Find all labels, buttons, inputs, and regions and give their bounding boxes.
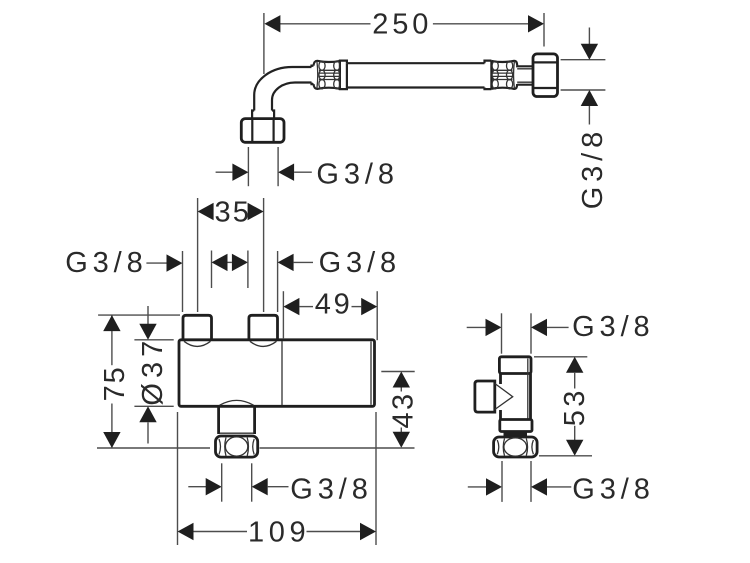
dim 75 line upper <box>111 315 113 365</box>
dim 49 left ext line <box>282 291 284 339</box>
hose right dim top arrow + line <box>588 28 590 45</box>
dim 109 lines <box>194 531 248 533</box>
front G3/8 right arrow <box>278 254 294 271</box>
dim Ø37 top tick <box>134 339 173 341</box>
bottom G3/8 lead line <box>188 486 206 488</box>
dimension 250 left arrow <box>264 15 280 32</box>
hose G3/8 right lead line <box>294 171 312 173</box>
side valve cylinder inner edge <box>527 359 529 420</box>
dim 53 lower line <box>574 426 576 440</box>
svg-text:G3/8: G3/8 <box>316 158 398 190</box>
dim 49 right arrow <box>361 298 377 315</box>
side valve dark neck <box>504 432 528 438</box>
svg-text:G3/8: G3/8 <box>65 247 147 279</box>
right top port <box>249 315 278 340</box>
dim 53 bottom tick <box>539 455 592 457</box>
dimension 250 ext line right <box>543 13 545 47</box>
dim 49 left arrow <box>283 298 299 315</box>
svg-text:75: 75 <box>99 365 131 401</box>
svg-text:Ø37: Ø37 <box>137 336 169 406</box>
left top port fillet <box>184 341 211 346</box>
hose elbow outer curve <box>254 67 311 95</box>
dim 43 top tick <box>381 371 414 373</box>
middle pair left ext line <box>211 251 213 289</box>
svg-text:G3/8: G3/8 <box>577 127 609 209</box>
dim 109 right arrow <box>360 523 376 540</box>
bottom nut side faces <box>225 438 249 457</box>
bottom G3/8 right lead line <box>268 486 289 488</box>
bottom G3/8 right arrow <box>252 478 268 495</box>
dim 35 left arrow <box>198 203 214 220</box>
svg-text:250: 250 <box>372 9 432 41</box>
dim 53 bottom arrow <box>566 440 583 456</box>
hose elbow inner curve <box>272 83 312 101</box>
front G3/8 left arrow <box>167 254 183 271</box>
right crimp lattice <box>492 61 513 89</box>
side outlet chevron <box>495 384 513 410</box>
dim 35 right arrow <box>248 203 264 220</box>
bottom port <box>219 406 255 434</box>
svg-text:G3/8: G3/8 <box>290 473 372 505</box>
dim 53 top arrow <box>566 357 583 373</box>
right crimp sleeve outline <box>491 61 517 89</box>
side top G3/8 right arrow <box>531 319 547 336</box>
side nut faces <box>503 439 527 456</box>
middle pair right arrow <box>232 254 248 271</box>
bottom port collar line <box>220 432 254 434</box>
dimension 250 line left segment <box>279 23 371 25</box>
hose right nut hex faces <box>534 62 557 88</box>
side valve cylinder <box>501 374 531 420</box>
left crimp sleeve bands <box>340 61 347 89</box>
nipple between crimp and nut <box>517 66 533 85</box>
side valve collar <box>500 420 532 432</box>
side top G3/8 right lead line <box>547 326 569 328</box>
dimension 250 line right segment <box>433 23 529 25</box>
valve body <box>179 340 375 407</box>
dim 75 bottom arrow <box>103 432 120 448</box>
bottom reference line left segment <box>97 447 210 449</box>
dim Ø37 bottom arrow+line <box>139 406 156 422</box>
hose body top line <box>347 62 485 64</box>
dim Ø37 top line+arrow <box>147 306 149 324</box>
front G3/8 right lead line <box>294 261 313 263</box>
valve body division line <box>281 341 283 405</box>
hose G3/8 left arrow <box>232 164 248 181</box>
hose left collar <box>252 111 274 119</box>
side valve hex nut <box>494 437 537 457</box>
hose right nut <box>533 54 558 97</box>
right crimp band <box>485 61 492 90</box>
left top port <box>183 315 212 340</box>
svg-text:53: 53 <box>559 387 591 426</box>
svg-text:G3/8: G3/8 <box>572 473 654 505</box>
dim 109 right ext line <box>375 412 377 545</box>
svg-text:G3/8: G3/8 <box>319 247 401 279</box>
right top port fillet <box>250 341 277 346</box>
dim 75 top tick <box>98 314 180 316</box>
hose left nut <box>241 119 284 143</box>
bottom nut corner arcs <box>219 439 254 455</box>
hose left nut hex faces <box>252 120 273 142</box>
dim 49 right ext line <box>376 291 378 340</box>
bottom reference line right segment <box>260 447 415 449</box>
bottom G3/8 left arrow <box>206 478 222 495</box>
front G3/8 left ext line <box>182 251 184 312</box>
valve body inner edge line <box>370 342 372 405</box>
hose right dim bottom arrow + line <box>581 90 598 106</box>
dim 43 bottom arrow <box>400 428 402 433</box>
dimension 250 ext line left <box>263 13 265 74</box>
right crimp sleeve bands <box>490 61 492 89</box>
bottom G3/8 ext lines <box>221 463 223 501</box>
bottom hex nut <box>216 436 258 457</box>
side bottom G3/8 right lead line <box>547 486 571 488</box>
dimension 250 right arrow <box>528 15 544 32</box>
front G3/8 left lead line <box>146 262 167 264</box>
dim 43 top arrow <box>393 372 410 388</box>
dim 75 line lower <box>111 404 113 449</box>
dim 109 left arrow <box>178 523 194 540</box>
hose G3/8 dim left ext line <box>247 147 249 186</box>
side top G3/8 lead line <box>467 326 486 328</box>
side top G3/8 ext lines <box>501 313 503 353</box>
side top G3/8 left arrow <box>486 319 502 336</box>
svg-text:G3/8: G3/8 <box>572 311 654 343</box>
front G3/8 right ext line <box>277 251 279 312</box>
side bottom G3/8 ext lines <box>501 461 503 502</box>
bottom port fillet arc <box>220 400 254 405</box>
svg-text:43: 43 <box>387 391 419 428</box>
dim 49 lines <box>299 306 313 308</box>
side bottom G3/8 lead line <box>468 486 487 488</box>
side nut dome <box>504 438 527 456</box>
middle pair stub <box>228 261 232 263</box>
side bottom G3/8 left arrow <box>486 478 502 495</box>
left crimp bell inner edge <box>316 61 319 88</box>
dim Ø37 bottom tick <box>134 405 173 407</box>
hose right dim bottom tick <box>561 89 606 91</box>
side nut corner arcs <box>497 440 533 454</box>
middle pair right ext line <box>247 251 249 289</box>
left crimp sleeve outline <box>314 61 347 90</box>
side bottom G3/8 right arrow <box>531 478 547 495</box>
right crimp bell inner edge <box>513 61 516 88</box>
hose G3/8 left lead line <box>216 171 233 173</box>
side valve cap <box>499 357 531 374</box>
middle pair left arrow <box>212 254 228 271</box>
left crimp step <box>312 66 314 85</box>
side outlet <box>475 381 495 412</box>
nipple inner lines <box>517 69 533 82</box>
dim 53 top tick <box>534 356 587 358</box>
hose G3/8 dim right ext line <box>277 147 279 186</box>
hose elbow vertical tube <box>254 95 272 111</box>
dim 75 top arrow <box>103 315 120 331</box>
svg-text:49: 49 <box>315 289 353 321</box>
bottom nut dome <box>225 437 247 456</box>
hose G3/8 right arrow <box>278 164 294 181</box>
svg-text:35: 35 <box>215 197 251 229</box>
hose body bottom line <box>347 86 485 88</box>
dim 35 left centerline <box>197 198 199 312</box>
hose right dim top tick <box>561 59 606 61</box>
dim 53 upper line <box>574 373 576 389</box>
left crimp lattice <box>319 61 340 89</box>
svg-text:109: 109 <box>248 517 310 549</box>
dim 35 right centerline <box>263 198 265 312</box>
dim 109 left ext line <box>177 412 179 545</box>
